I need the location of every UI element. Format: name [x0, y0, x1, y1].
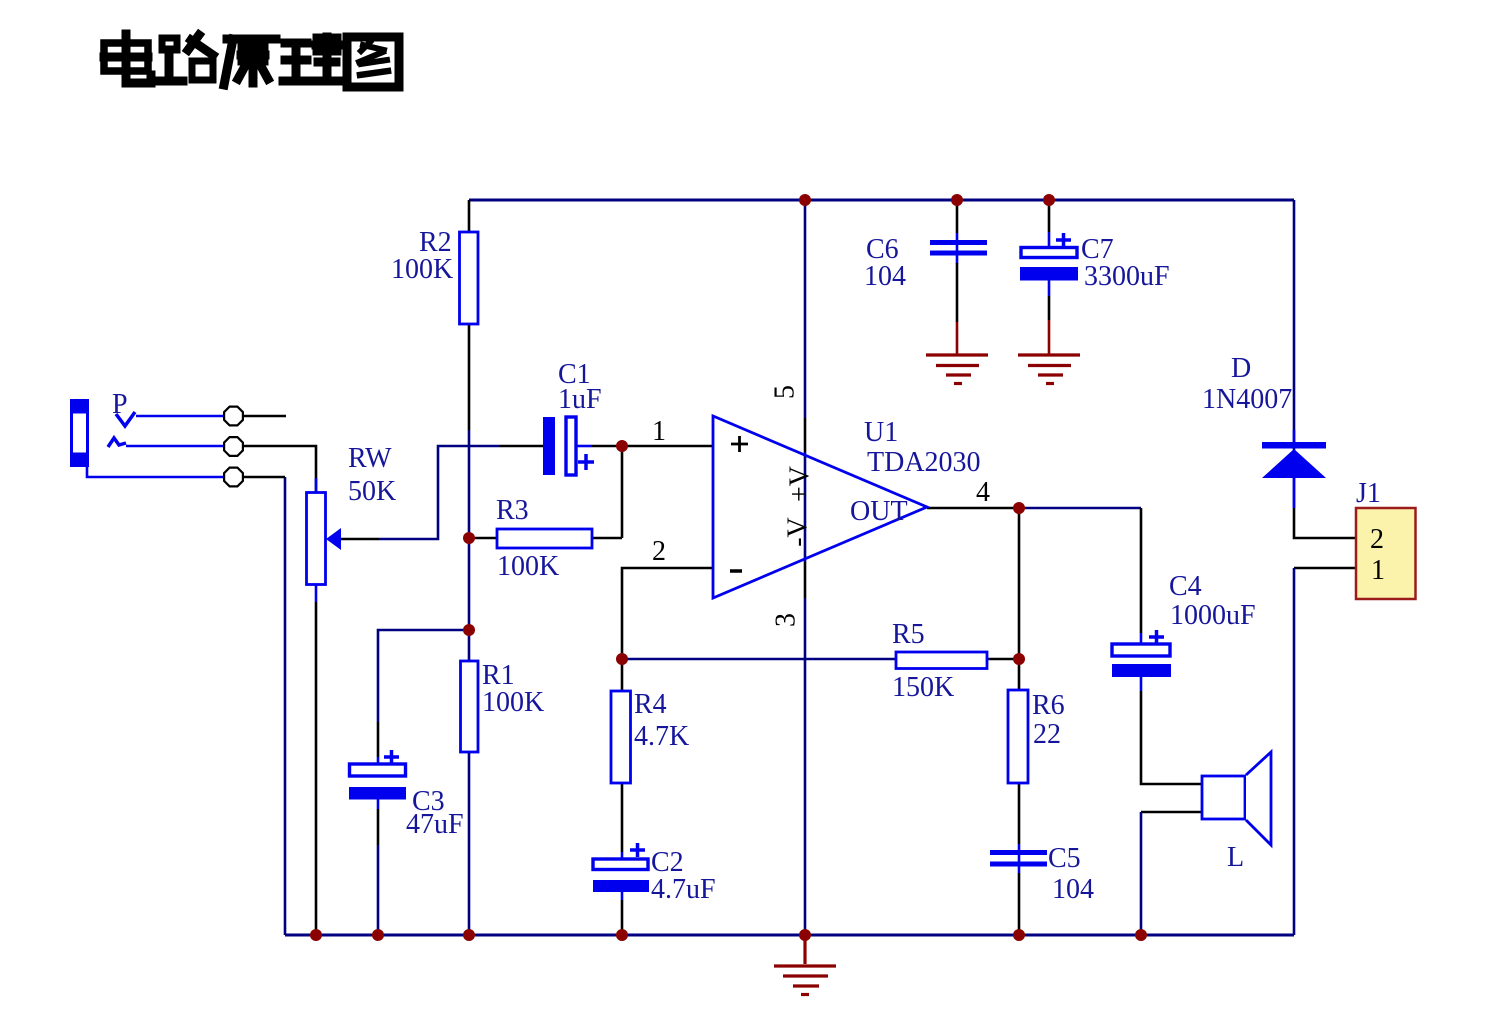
node rail / C3	[372, 929, 384, 941]
wire op-amp pin 5 stub	[804, 418, 807, 452]
wire R6/C5 column upper	[1018, 659, 1021, 844]
potentiometer RW	[307, 493, 342, 585]
title 电路原理图 (drawn strokes)	[104, 34, 399, 87]
wire C4 down to speaker	[1141, 691, 1202, 784]
wire output node to C4 column (navy)	[1019, 507, 1141, 510]
svg-text:1: 1	[1371, 555, 1385, 586]
wire R4/C2 column	[621, 659, 624, 852]
wire C6 column lower	[956, 263, 959, 322]
node rail / C2	[616, 929, 628, 941]
理	[283, 37, 340, 81]
wire C1 right stub (blue)	[576, 445, 592, 448]
wire C7 column lower	[1048, 296, 1051, 320]
svg-text:100K: 100K	[391, 254, 453, 285]
wire RW bottom blue stub	[315, 584, 318, 602]
wire C3 to ground rail	[377, 845, 380, 935]
svg-text:47uF: 47uF	[406, 809, 464, 840]
node rail / C5	[1013, 929, 1025, 941]
ground below C7	[1018, 355, 1080, 384]
resistor R6	[1008, 690, 1028, 783]
svg-text:R4: R4	[634, 689, 667, 720]
svg-text:C4: C4	[1169, 571, 1202, 602]
wire C6 column upper	[956, 200, 959, 233]
wire feedback row to R5 (navy)	[622, 658, 990, 661]
capacitor C6	[930, 240, 987, 256]
svg-text:-V: -V	[782, 517, 813, 547]
op-amp plus input mark	[731, 436, 748, 452]
node pin2 / R4 / feedback	[616, 653, 628, 665]
svg-text:OUT: OUT	[850, 496, 908, 527]
diode D 1N4007	[1262, 442, 1326, 478]
node rail / RW	[310, 929, 322, 941]
connector P (audio jack)	[70, 399, 224, 477]
wire C3 upper blue stub	[377, 757, 380, 764]
svg-text:+V: +V	[784, 466, 815, 502]
resistor R3	[497, 529, 592, 548]
wire into C1 left plate	[500, 445, 543, 448]
svg-text:104: 104	[864, 261, 906, 292]
wire J1 pin1	[1294, 567, 1356, 570]
svg-text:22: 22	[1033, 719, 1061, 750]
node top rail / C6	[951, 194, 963, 206]
wire center supply column (navy)	[804, 200, 807, 935]
svg-text:C5: C5	[1048, 843, 1081, 874]
svg-text:4.7K: 4.7K	[634, 721, 689, 752]
wire C2 upper blue stub	[621, 852, 624, 859]
wire jack tip stub (black)	[243, 415, 286, 418]
svg-text:2: 2	[1370, 524, 1384, 555]
capacitor C5	[990, 850, 1047, 867]
wire pin1 node down to R3	[621, 446, 624, 538]
op-amp minus input mark	[730, 569, 742, 573]
svg-text:R3: R3	[496, 495, 529, 526]
wire diode cathode blue stub	[1293, 430, 1296, 442]
node divider / R3 left	[463, 532, 475, 544]
node top rail / center column	[799, 194, 811, 206]
node pin1 / C1 / R3	[616, 440, 628, 452]
node top rail / C7	[1043, 194, 1055, 206]
connector J1	[1356, 508, 1416, 599]
wire C7 to ground (dark red)	[1048, 320, 1051, 354]
svg-text:U1: U1	[864, 417, 898, 448]
svg-text:5: 5	[769, 385, 800, 399]
svg-text:L: L	[1227, 842, 1244, 873]
op-amp U1	[713, 416, 927, 598]
wire op-amp pin 3 stub	[804, 562, 807, 598]
wire speaker bottom lead	[1141, 811, 1202, 814]
wire R2/R1 divider column upper (black)	[468, 200, 471, 430]
wire output node down to R6	[1018, 508, 1021, 659]
svg-text:2: 2	[652, 536, 666, 567]
wire RW top blue stub	[315, 478, 318, 492]
wire C5 to ground rail	[1018, 873, 1021, 935]
capacitor C1	[543, 417, 594, 475]
wire bottom ground rail	[285, 934, 1294, 937]
svg-text:R5: R5	[892, 619, 925, 650]
ground below C6	[926, 355, 988, 384]
wire C7 column upper	[1048, 200, 1051, 232]
wire RW wiper run (black part)	[341, 538, 379, 541]
wire C7 upper blue stub	[1048, 232, 1051, 248]
wire op-amp pin 2	[622, 568, 713, 659]
svg-text:104: 104	[1052, 874, 1094, 905]
svg-text:1N4007: 1N4007	[1202, 384, 1292, 415]
wire R5 right lead	[990, 658, 1019, 661]
wire C1 to op-amp pin 1	[592, 445, 713, 448]
svg-text:3300uF: 3300uF	[1084, 261, 1170, 292]
capacitor C3	[349, 750, 406, 800]
svg-text:150K: 150K	[892, 672, 954, 703]
ground main (below center column)	[774, 937, 836, 995]
svg-text:P: P	[112, 389, 128, 420]
pin circle tip	[224, 407, 243, 426]
capacitor C7	[1020, 233, 1078, 281]
wire C6 blue lead through plates	[956, 233, 959, 264]
wire C7 lower blue stub	[1048, 281, 1051, 297]
svg-text:D: D	[1231, 353, 1251, 384]
wire jack sleeve to left column	[243, 476, 285, 479]
电	[104, 34, 151, 83]
resistor R5	[896, 652, 987, 669]
svg-text:RW: RW	[348, 443, 392, 474]
node output / C4	[1013, 502, 1025, 514]
svg-text:3: 3	[770, 613, 801, 627]
capacitor C2	[593, 843, 649, 892]
pin circle sleeve	[224, 468, 243, 487]
wire C3 branch from divider	[378, 630, 469, 722]
svg-text:50K: 50K	[348, 476, 396, 507]
wire C4 column upper	[1140, 508, 1143, 633]
wire diode to J1 pin2 corner	[1294, 508, 1356, 538]
svg-text:1000uF: 1000uF	[1170, 600, 1256, 631]
node R5 / R6	[1013, 653, 1025, 665]
svg-text:4: 4	[976, 477, 990, 508]
speaker L	[1202, 752, 1271, 845]
pin circle ring	[224, 437, 243, 456]
wire J1 pin1 down to ground rail	[1293, 568, 1296, 935]
svg-text:TDA2030: TDA2030	[867, 447, 981, 478]
resistor R4	[611, 691, 631, 783]
wire C3 lower blue stub	[377, 800, 380, 810]
svg-text:1uF: 1uF	[558, 384, 602, 415]
svg-text:100K: 100K	[482, 687, 544, 718]
图	[347, 37, 399, 87]
wire jack ring contact to RW top	[243, 446, 316, 492]
svg-text:J1: J1	[1356, 478, 1381, 509]
wire RW wiper to C1 (navy)	[379, 446, 500, 539]
node rail / speaker	[1135, 929, 1147, 941]
wire top power rail	[469, 199, 1294, 202]
svg-text:100K: 100K	[497, 551, 559, 582]
wire R3 right lead	[592, 537, 622, 540]
capacitor C4	[1112, 630, 1171, 677]
node rail / R1	[463, 929, 475, 941]
svg-text:1: 1	[652, 416, 666, 447]
wire C3 upper black lead	[377, 722, 380, 757]
wire C4 upper blue stub	[1140, 633, 1143, 644]
resistor R2	[460, 232, 479, 324]
wire R3 left lead	[469, 537, 497, 540]
wire RW bottom to ground rail	[315, 602, 318, 935]
wire op-amp pin 4 output	[927, 507, 1019, 510]
wire C6 to ground (dark red)	[956, 322, 959, 354]
svg-text:R6: R6	[1032, 690, 1065, 721]
svg-text:4.7uF: 4.7uF	[651, 874, 716, 905]
wire C2 to ground rail	[621, 900, 624, 935]
wire C2 lower blue stub	[621, 892, 624, 900]
node divider / C3 branch	[463, 624, 475, 636]
node rail / ground	[799, 929, 811, 941]
wire C4 lower blue stub	[1140, 677, 1143, 691]
wire right column to diode	[1293, 200, 1296, 508]
resistor R1	[461, 661, 479, 752]
路	[160, 35, 213, 81]
wire diode anode blue stub	[1293, 478, 1296, 508]
wire speaker return to ground rail	[1140, 812, 1143, 935]
wire C3 lower black lead	[377, 809, 380, 845]
wire R2/R1 divider column lower (navy)	[468, 430, 471, 935]
原	[224, 39, 276, 85]
wire left return column	[284, 477, 287, 935]
wire C5 blue lead through plates	[1018, 844, 1021, 873]
